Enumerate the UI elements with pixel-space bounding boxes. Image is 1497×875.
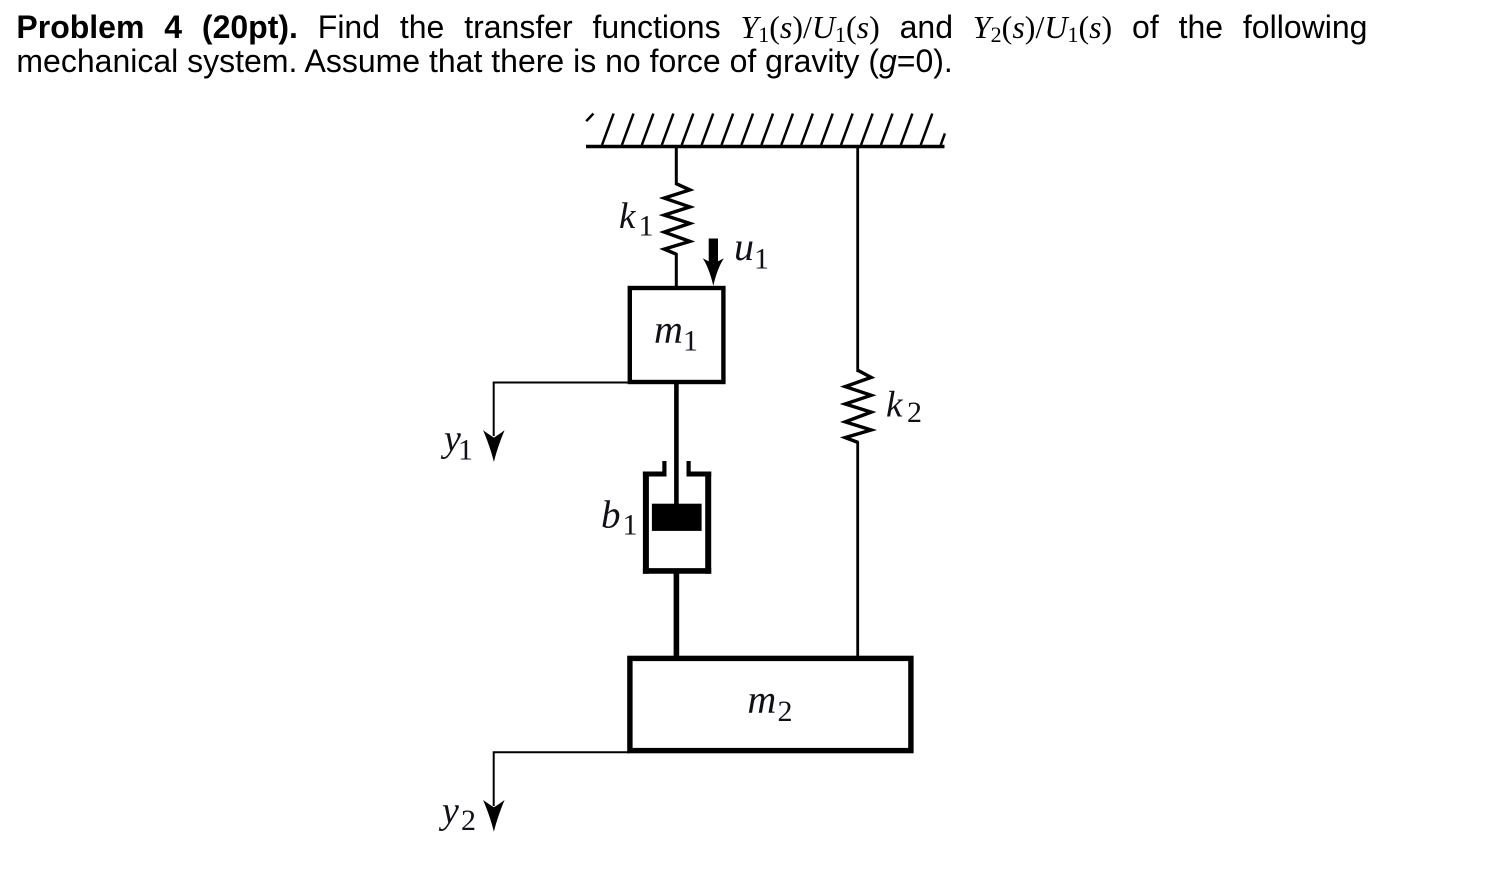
svg-text:1: 1	[623, 509, 638, 542]
mass m2	[630, 658, 911, 750]
svg-text:1: 1	[458, 434, 473, 467]
wire: ceiling to spring k2	[856, 145, 859, 372]
svg-text:k: k	[886, 385, 903, 426]
measurement line y2	[494, 752, 630, 806]
svg-text:1: 1	[639, 210, 654, 243]
svg-text:1: 1	[754, 243, 769, 276]
svg-text:1: 1	[683, 325, 698, 358]
svg-text:2: 2	[461, 804, 476, 837]
wire: spring k2 to mass m2	[856, 442, 859, 659]
problem statement paragraph	[16, 10, 1367, 78]
mass m1	[630, 288, 724, 382]
arrowhead y2	[483, 800, 505, 832]
wire: damper b1 to mass m2	[674, 571, 680, 658]
svg-text:2: 2	[907, 396, 922, 429]
svg-text:u: u	[734, 224, 754, 269]
ceiling hatching	[586, 114, 945, 145]
damper b1 cylinder	[643, 461, 711, 574]
measurement line y1	[494, 383, 630, 437]
svg-text:k: k	[619, 196, 636, 237]
wire: ceiling to spring k1	[675, 145, 678, 185]
svg-text:y: y	[438, 790, 459, 832]
force arrow u1	[703, 239, 724, 286]
svg-text:m: m	[747, 676, 776, 721]
damper b1 piston	[652, 504, 702, 531]
svg-text:m: m	[654, 307, 683, 352]
wire: spring k1 to mass m1	[675, 253, 678, 287]
ceiling line	[586, 145, 945, 148]
svg-text:2: 2	[778, 695, 793, 728]
spring k1	[664, 184, 690, 255]
svg-text:b: b	[601, 494, 621, 537]
spring k2	[845, 371, 871, 443]
damper piston rod	[674, 384, 679, 506]
arrowhead y1	[483, 430, 505, 462]
